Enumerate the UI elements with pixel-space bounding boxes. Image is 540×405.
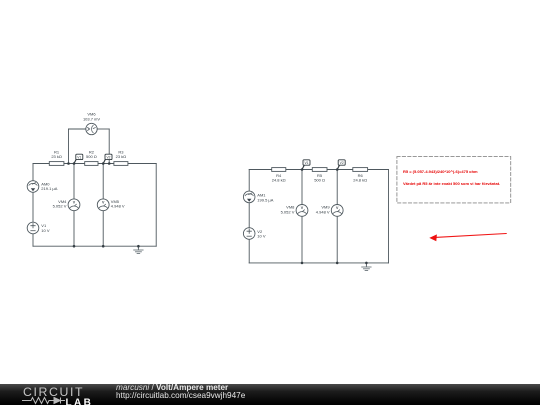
ground (left circuit) xyxy=(134,246,143,253)
wire: VM8 branch upper xyxy=(301,170,303,205)
junction dot row node V2 xyxy=(102,162,105,165)
voltmeter VM9 xyxy=(316,205,343,217)
svg-text:4.948 V: 4.948 V xyxy=(111,204,125,209)
wire: R4 to R5 segment xyxy=(286,169,313,171)
wire: R1 to R2 segment xyxy=(64,163,85,165)
voltage source V1 xyxy=(27,222,50,234)
junction dot row node V1 xyxy=(73,162,76,165)
svg-text:V1: V1 xyxy=(304,161,308,165)
wire: R6 to right corner xyxy=(368,169,389,171)
wire: VM4 branch upper xyxy=(73,164,75,199)
ammeter AM1 xyxy=(243,191,273,203)
wire: VM5 branch lower xyxy=(102,211,104,247)
wire: top row corner to R4 xyxy=(249,169,272,171)
resistor R1 xyxy=(49,149,64,165)
wire: bottom rail left circuit xyxy=(33,245,156,247)
wire: VM6 left horizontal xyxy=(69,128,86,130)
resistor R5 xyxy=(312,168,327,183)
node flag V2 (right circuit) xyxy=(337,160,345,170)
annotation red arrow xyxy=(429,234,506,242)
svg-text:V2: V2 xyxy=(106,156,110,160)
wire: VM6 right horizontal xyxy=(97,128,109,130)
svg-text:10 V: 10 V xyxy=(257,234,266,239)
wire: VM6 right vertical xyxy=(108,129,110,164)
node flag V1 (right circuit) xyxy=(302,160,310,170)
junction dot bottom ground xyxy=(137,245,140,248)
junction dot bottom ground right xyxy=(365,262,368,265)
svg-text:103.7 mV: 103.7 mV xyxy=(83,117,100,122)
wire: VM9 branch upper xyxy=(336,170,338,205)
junction dot bottom VM9 xyxy=(336,262,339,265)
wire: VM5 branch upper xyxy=(102,164,104,199)
svg-text:23 kΩ: 23 kΩ xyxy=(116,154,127,159)
wire: R2 to R3 segment xyxy=(98,163,114,165)
wire: R5 to R6 segment xyxy=(327,169,353,171)
junction dot row node V2 right xyxy=(336,168,339,171)
wire: left rail top segment right circuit xyxy=(248,170,250,192)
footer url line xyxy=(116,392,245,400)
junction dot row node V1 right xyxy=(301,168,304,171)
svg-text:500 Ω: 500 Ω xyxy=(314,177,325,182)
svg-text:R5 = (5.057-4.943)/240*10^(-6): R5 = (5.057-4.943)/240*10^(-6)=475 ohm xyxy=(403,169,478,174)
svg-text:V1: V1 xyxy=(77,156,81,160)
resistor R6 xyxy=(353,168,368,183)
svg-text:4.948 V: 4.948 V xyxy=(316,209,330,214)
junction dot bottom VM5 xyxy=(102,245,105,248)
wire: VM4 branch lower xyxy=(73,211,75,247)
resistor R2 xyxy=(85,149,98,165)
wire: left rail V2 to bottom xyxy=(248,239,250,263)
wire: VM9 branch lower xyxy=(336,216,338,263)
svg-text:5.052 V: 5.052 V xyxy=(53,204,67,209)
svg-text:199.5 µA: 199.5 µA xyxy=(257,198,273,203)
junction dot row VM6-right xyxy=(108,162,111,165)
voltmeter VM5 xyxy=(97,199,125,211)
wire: right rail left circuit xyxy=(155,164,157,247)
wire: top row corner to R1 xyxy=(33,163,49,165)
svg-text:V2: V2 xyxy=(340,161,344,165)
wire: left rail AM0 to V1 xyxy=(32,192,34,222)
wire: bottom rail right circuit xyxy=(249,262,388,264)
voltmeter VM4 xyxy=(53,199,80,211)
resistor R4 xyxy=(272,168,286,183)
ammeter AM0 xyxy=(27,181,58,193)
svg-text:23 kΩ: 23 kΩ xyxy=(51,154,62,159)
junction dot bottom VM4 xyxy=(73,245,76,248)
resistor R3 xyxy=(114,149,128,165)
annotation note box (red text, dashed border) xyxy=(397,157,511,203)
node flag V2 (left circuit) xyxy=(103,154,112,163)
CircuitLab logo wordmark xyxy=(23,385,84,399)
wire: left rail top segment (corner to AM0) xyxy=(32,164,34,181)
footer bar xyxy=(0,384,540,405)
wire: left rail AM1 to V2 xyxy=(248,203,250,228)
logo squiggle and LAB xyxy=(11,396,106,405)
svg-text:500 Ω: 500 Ω xyxy=(86,154,97,159)
voltmeter VM8 xyxy=(281,205,308,217)
junction dot bottom VM8 xyxy=(301,262,304,265)
wire: R3 to right corner xyxy=(128,163,156,165)
svg-text:Värdet på R5 är inte exakt 500: Värdet på R5 är inte exakt 500 som vi ha… xyxy=(403,181,500,186)
ground (right circuit) xyxy=(362,263,371,271)
wire: right rail right circuit xyxy=(388,170,390,263)
junction dot row VM6-left xyxy=(67,162,70,165)
svg-text:LAB: LAB xyxy=(66,397,94,405)
svg-text:10 V: 10 V xyxy=(41,228,50,233)
voltmeter VM6 xyxy=(83,112,100,135)
wire: left rail V1 to bottom xyxy=(32,234,34,246)
svg-text:5.052 V: 5.052 V xyxy=(281,209,295,214)
svg-text:24.8 kΩ: 24.8 kΩ xyxy=(353,177,367,182)
node flag V1 (left circuit) xyxy=(74,154,83,163)
svg-text:219.1 µA: 219.1 µA xyxy=(41,186,57,191)
wire: VM8 branch lower xyxy=(301,216,303,263)
wire: VM6 left vertical xyxy=(68,129,70,164)
svg-text:24.8 kΩ: 24.8 kΩ xyxy=(272,177,286,182)
footer title line xyxy=(116,384,228,392)
voltage source V2 xyxy=(243,228,265,240)
